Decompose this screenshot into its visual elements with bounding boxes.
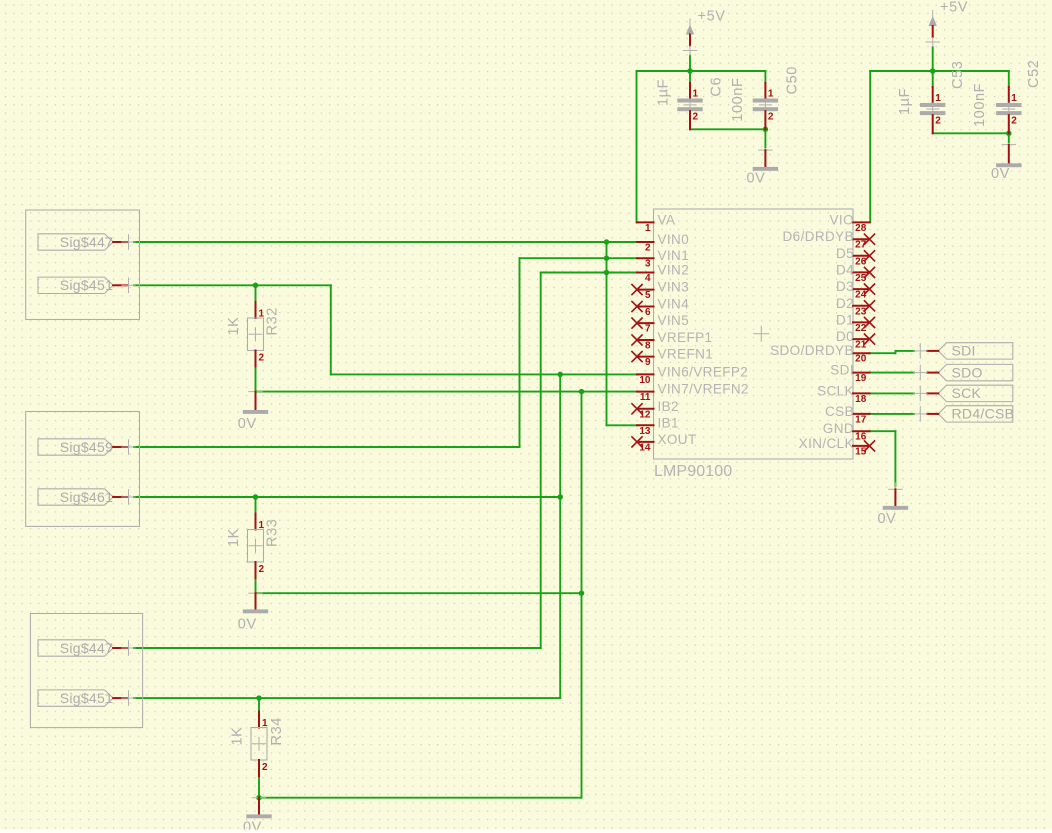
wire net N$4 row from port Sig$461 [134,496,560,498]
svg-text:8: 8 [645,341,651,352]
svg-text:IB1: IB1 [658,415,679,430]
svg-text:1µF: 1µF [897,88,913,115]
svg-text:15: 15 [855,446,867,457]
junction N$4 at pin10 row [557,372,563,378]
svg-text:Sig$451: Sig$451 [60,690,113,706]
svg-text:VIN4: VIN4 [658,297,690,312]
svg-text:22: 22 [855,323,867,334]
svg-text:SDI: SDI [830,363,854,378]
wire net N$4 drop to R34 pin 1 [258,698,260,714]
svg-text:1: 1 [262,718,268,729]
svg-text:Sig$451: Sig$451 [60,277,113,293]
svg-text:14: 14 [639,442,651,453]
svg-text:1K: 1K [226,317,242,336]
wire net N$4 VIN6/VREFP2 row to pin 10 [331,373,638,375]
svg-text:XIN/CLK: XIN/CLK [799,436,854,451]
wire net 0V R32 pin2 to ground [255,367,257,392]
resistor R33 1K [248,514,265,579]
wire net 0V R33 pin2 to ground [255,579,257,594]
resistor R34 1K [251,712,268,777]
svg-text:2: 2 [935,116,941,127]
svg-text:1µF: 1µF [656,79,672,106]
svg-text:C50: C50 [785,66,801,94]
junction 0V at R34 ground [256,795,262,801]
svg-text:2: 2 [259,353,265,364]
wire +5V left supply drop [689,56,691,72]
junction 0V at R33 ground row [579,590,585,596]
wire +5V to C52 pin 1 [1008,71,1010,87]
svg-text:D5: D5 [836,246,854,261]
wire C52 bottom to ground [1008,133,1010,142]
wire net N$4 vertical x=330.8 [330,285,332,374]
junction N$4 at R33 pin 1 [253,494,259,500]
svg-text:VIN5: VIN5 [658,313,690,328]
wire net N$1 stub to pin 13 IB1 [607,424,638,426]
svg-text:1: 1 [1011,93,1017,104]
junction 0V at VIN7 row [579,389,585,395]
port Sig$459 (middle frame) [38,439,136,455]
svg-text:R33: R33 [265,519,281,547]
svg-text:18: 18 [855,394,867,405]
svg-text:VIN0: VIN0 [658,232,690,247]
wire SDI pin 19 to SDO port [870,372,915,374]
svg-text:RD4/CSB: RD4/CSB [952,406,1015,422]
wire SCLK pin 18 to SCK port [870,392,915,394]
pin 27 D6/DRDYB [783,229,876,251]
junction N$4 at Sig$461 row [557,494,563,500]
port SDO [913,364,1013,380]
wire net N$3 VIN2 row to pin 4 [541,272,638,274]
svg-text:2: 2 [693,112,699,123]
svg-text:VIN6/VREFP2: VIN6/VREFP2 [658,364,749,379]
svg-text:1K: 1K [230,727,246,746]
pin 21 D0 [836,329,875,351]
svg-text:VIO: VIO [830,212,854,227]
svg-text:XOUT: XOUT [658,432,697,447]
wire net 0V vertical x=581.5 [581,392,583,798]
svg-text:D4: D4 [836,262,854,277]
svg-text:LMP90100: LMP90100 [654,463,732,480]
svg-text:2: 2 [768,112,774,123]
ground 0V under C52 [991,145,1022,182]
svg-text:13: 13 [639,426,651,437]
svg-text:+5V: +5V [940,0,968,16]
junction N$1 at VIN2 row [604,270,610,276]
wire net N$2 row from port Sig$459 [134,446,520,448]
IC U1 origin cross [753,326,769,342]
svg-text:VA: VA [658,212,676,227]
wire +5V to C6 pin 1 [689,71,691,83]
port Sig$451 (lower frame) [38,690,136,706]
wire net N$2 VIN1 row to pin 3 [520,257,638,259]
pin 2 VIN0 [637,232,689,254]
svg-text:23: 23 [855,306,867,317]
svg-text:Sig$447: Sig$447 [60,234,113,250]
wire net N$4 vertical x=560.2 [559,374,561,698]
ground 0V under R32 [238,392,268,432]
pin 15 XIN/CLK [799,436,875,458]
svg-text:VIN7/VREFN2: VIN7/VREFN2 [658,382,749,397]
svg-text:19: 19 [855,373,867,384]
svg-text:0V: 0V [238,617,257,633]
junction +5V left rail [687,68,693,74]
svg-text:D1: D1 [836,312,854,327]
svg-text:C53: C53 [950,61,966,89]
svg-text:1: 1 [935,93,941,104]
pin 22 D1 [836,312,875,334]
wire C6/C50 bottom row [690,128,765,130]
ground 0V at IC GND pin 16 [878,482,909,527]
op-amp/IC U1 LMP90100 body [654,209,854,459]
wire net N$3 row from lower port Sig$447 [134,647,541,649]
pin 6 VIN4 [631,297,689,319]
resistor R32 1K [248,302,265,367]
svg-text:26: 26 [855,256,867,267]
svg-text:1K: 1K [226,528,242,547]
junction N$4 at R32 pin 1 [253,283,259,289]
svg-text:Sig$447: Sig$447 [60,640,113,656]
svg-text:2: 2 [262,762,268,773]
svg-text:12: 12 [639,409,651,420]
svg-text:D0: D0 [836,329,854,344]
wire C50 bottom to ground [764,129,766,147]
svg-text:SDI: SDI [952,343,976,359]
svg-text:2: 2 [645,243,651,254]
pin 13 IB1 [637,415,679,437]
wire net N$4 row from lower port Sig$451 [134,697,560,699]
pin 4 VIN2 [637,263,689,285]
svg-text:0V: 0V [238,416,257,432]
svg-text:6: 6 [645,307,651,318]
svg-text:VIN1: VIN1 [658,248,690,263]
junction C52 bottom [1006,131,1012,137]
svg-text:20: 20 [855,354,867,365]
pin 23 D2 [836,296,875,318]
wire +5V right supply drop [932,47,934,71]
ground 0V under R33 [238,593,268,632]
pin 7 VIN5 [631,313,689,335]
svg-text:D3: D3 [836,279,854,294]
svg-text:9: 9 [645,357,651,368]
svg-text:D6/DRDYB: D6/DRDYB [783,229,854,244]
pin 5 VIN3 [631,280,689,302]
svg-text:1: 1 [768,89,774,100]
pin 9 VREFN1 [631,347,713,369]
port Sig$461 (middle frame) [38,489,136,505]
svg-text:R34: R34 [269,717,285,745]
svg-text:SCK: SCK [952,385,982,401]
svg-text:VREFN1: VREFN1 [658,347,714,362]
+5V supply symbol (right group) [926,0,969,47]
svg-text:100nF: 100nF [972,83,988,127]
wire net 0V row from R32 ground to pin 11 VIN7/VREFN2 [256,391,638,393]
port RD4/CSB [913,406,1014,422]
junction N$1 at VIN0 row [604,239,610,245]
pin 10 VIN6/VREFP2 [637,364,748,386]
svg-text:0V: 0V [991,166,1010,182]
port SDI [913,343,1013,359]
svg-text:C6: C6 [709,77,725,97]
svg-text:SCLK: SCLK [817,383,854,398]
pin 17 CSB [825,404,869,426]
svg-text:21: 21 [855,340,867,351]
wire C53/C52 bottom row [933,132,1009,134]
pin 28 VIO [830,212,870,234]
pin 16 GND [823,421,870,443]
junction N$4 at R34 pin 1 [256,695,262,701]
pin 26 D5 [836,246,875,268]
pin 8 VREFP1 [631,330,712,352]
pin 3 VIN1 [637,248,689,270]
svg-text:5: 5 [645,290,651,301]
svg-text:+5V: +5V [698,9,726,25]
svg-text:D2: D2 [836,296,854,311]
pin 19 SDI [830,363,869,385]
wire net N$4 drop to R33 pin 1 [255,497,257,514]
svg-text:Sig$461: Sig$461 [60,489,113,505]
wire GND pin 16 to ground [870,430,896,432]
junction N$1 at VIN1 row [604,255,610,261]
svg-text:GND: GND [823,421,854,436]
pin 18 SCLK [817,383,869,405]
wire net N$2 vertical x=519.5 [519,258,521,447]
svg-text:24: 24 [855,290,867,301]
svg-text:28: 28 [855,223,867,234]
svg-text:VREFP1: VREFP1 [658,330,713,345]
wire +5V left down to VA pin 1 [636,71,638,222]
svg-text:CSB: CSB [825,404,854,419]
pin 14 XOUT [631,432,696,454]
capacitor C6 1uF [677,83,702,129]
wire net N$4 row from port Sig$451 [134,284,331,286]
pin 24 D3 [836,279,875,301]
frame around upper port pair [26,210,140,320]
svg-text:10: 10 [639,375,651,386]
ground 0V under C50 [747,150,779,186]
svg-text:11: 11 [640,392,651,403]
wire +5V right rail [870,70,1009,72]
svg-text:R32: R32 [265,307,281,335]
port Sig$447 (upper frame) [38,234,136,250]
frame around lower port pair [30,614,142,728]
svg-text:IB2: IB2 [658,399,679,414]
frame around middle port pair [26,412,140,527]
wire +5V to C50 pin 1 [764,71,766,83]
svg-text:C52: C52 [1026,60,1042,88]
svg-text:1: 1 [645,223,651,234]
pin 12 IB2 [631,399,679,421]
svg-text:0V: 0V [747,171,766,187]
svg-text:4: 4 [645,273,651,284]
wire SDO/DRDYB pin 20 to SDI port, with jog [870,352,896,354]
pin 11 VIN7/VREFN2 [637,382,749,404]
junction +5V right rail [930,68,936,74]
svg-text:VIN2: VIN2 [658,263,690,278]
capacitor C50 100nF [753,83,778,129]
pin 20 SDO/DRDYB [770,343,869,365]
wire +5V right down to VIO pin 28 [869,71,871,222]
svg-text:100nF: 100nF [730,78,746,122]
svg-text:2: 2 [1011,116,1017,127]
wire net N$1 vertical bus x=606.5 down to IB1 row [606,242,608,425]
wire +5V to C53 pin 1 [932,71,934,87]
capacitor C52 100nF [996,87,1021,133]
wire net N$1 VIN0 row from port Sig$447 to pin 2 [134,241,638,243]
wire net 0V row from R33 ground [256,592,582,594]
svg-text:27: 27 [855,240,867,251]
wire +5V left rail [637,70,766,72]
pin 1 VA [637,212,675,234]
port Sig$447 (lower frame) [38,640,136,656]
svg-text:25: 25 [855,273,867,284]
svg-text:Sig$459: Sig$459 [60,439,113,455]
svg-text:0V: 0V [878,511,897,527]
ground 0V under R34 [243,798,272,833]
port SCK [913,385,1013,401]
wire CSB pin 17 to RD4/CSB port [870,413,915,415]
capacitor C53 1uF [920,87,945,133]
junction C50 bottom [763,127,769,133]
+5V supply symbol (left group) [683,9,726,56]
wire net 0V row from R34 ground [259,797,582,799]
svg-text:17: 17 [855,414,867,425]
svg-text:7: 7 [645,324,651,335]
pin 25 D4 [836,262,875,284]
wire net N$4 drop to R32 pin 1 [255,285,257,302]
port Sig$451 (upper frame) [38,277,136,293]
svg-text:2: 2 [259,564,265,575]
svg-text:SDO: SDO [952,364,983,380]
svg-text:3: 3 [645,259,651,270]
svg-text:VIN3: VIN3 [658,280,690,295]
wire net 0V R34 pin2 to ground [258,777,260,798]
svg-text:SDO/DRDYB: SDO/DRDYB [770,343,854,358]
svg-text:1: 1 [693,89,699,100]
wire net N$3 vertical x=540.7 [540,273,542,649]
